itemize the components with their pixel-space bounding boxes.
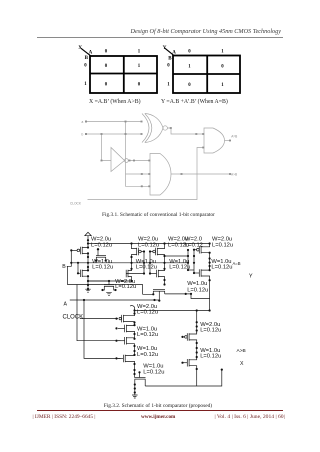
svg-text:L=0.12u: L=0.12u xyxy=(200,328,221,334)
svg-text:L=0.12u: L=0.12u xyxy=(91,243,112,249)
svg-text:Y: Y xyxy=(249,274,253,280)
svg-text:X: X xyxy=(240,361,244,367)
svg-text:W=2.0u: W=2.0u xyxy=(212,236,232,242)
svg-text:L=0.12u: L=0.12u xyxy=(136,264,157,270)
svg-text:1: 1 xyxy=(138,64,141,69)
svg-text:B: B xyxy=(85,56,89,61)
svg-text:L=0.12u: L=0.12u xyxy=(138,243,159,249)
svg-text:B: B xyxy=(168,57,172,62)
svg-text:0: 0 xyxy=(221,65,224,70)
svg-text:CLOCK: CLOCK xyxy=(63,315,84,321)
svg-text:L=0.12u: L=0.12u xyxy=(115,284,136,290)
svg-text:A: A xyxy=(89,51,93,56)
svg-text:L=0.12u: L=0.12u xyxy=(137,309,158,315)
svg-text:W=2.0u: W=2.0u xyxy=(91,236,111,242)
svg-text:A: A xyxy=(64,302,68,308)
svg-text:L=0.12u: L=0.12u xyxy=(187,288,208,294)
svg-text:0: 0 xyxy=(138,83,141,88)
svg-text:0: 0 xyxy=(105,49,108,54)
svg-text:A=B: A=B xyxy=(231,135,237,139)
svg-text:W=2.0u: W=2.0u xyxy=(138,236,158,242)
svg-text:1: 1 xyxy=(188,65,191,70)
svg-text:L=0.12u: L=0.12u xyxy=(137,332,158,338)
svg-text:B: B xyxy=(62,264,66,270)
svg-text:a: a xyxy=(82,120,84,124)
svg-text:CLOCK: CLOCK xyxy=(70,202,82,206)
svg-text:1: 1 xyxy=(84,82,87,87)
svg-text:A>B: A>B xyxy=(237,348,246,354)
svg-text:X: X xyxy=(78,45,82,51)
svg-text:A>B: A>B xyxy=(231,173,237,177)
svg-text:b: b xyxy=(82,133,84,137)
svg-text:0: 0 xyxy=(167,63,170,68)
svg-text:L=0.12u: L=0.12u xyxy=(169,264,190,270)
svg-text:A: A xyxy=(172,50,176,55)
svg-text:1: 1 xyxy=(221,49,224,54)
svg-text:0: 0 xyxy=(84,63,87,68)
svg-text:0: 0 xyxy=(105,64,108,69)
svg-text:Y: Y xyxy=(163,45,167,51)
svg-text:L=0.12u: L=0.12u xyxy=(137,352,158,358)
svg-text:0: 0 xyxy=(188,49,191,54)
svg-text:1: 1 xyxy=(138,49,141,54)
svg-text:1: 1 xyxy=(221,83,224,88)
svg-text:L=0.12: L=0.12 xyxy=(185,243,203,249)
svg-text:L=0.12u: L=0.12u xyxy=(200,353,221,359)
svg-text:W=2.0: W=2.0 xyxy=(185,236,202,242)
svg-text:1: 1 xyxy=(167,83,170,88)
svg-text:0: 0 xyxy=(105,83,108,88)
svg-text:W=1.0u: W=1.0u xyxy=(187,281,207,287)
svg-text:L=0.12u: L=0.12u xyxy=(143,370,164,376)
svg-text:A=B: A=B xyxy=(233,261,241,266)
svg-text:L=0.12u: L=0.12u xyxy=(92,264,113,270)
svg-text:L=0.12u: L=0.12u xyxy=(212,243,233,249)
svg-text:L=0.12u: L=0.12u xyxy=(211,264,232,270)
svg-text:0: 0 xyxy=(188,83,191,88)
